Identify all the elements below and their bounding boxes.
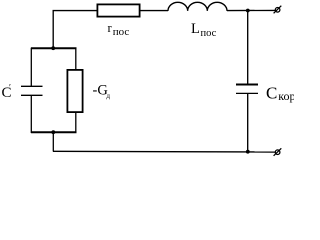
wire -G lower lead xyxy=(75,113,77,134)
node bottom bus junction xyxy=(51,130,55,134)
inductor L_pos xyxy=(168,2,227,11)
negative conductance -G_d box xyxy=(67,70,82,112)
svg-text:д: д xyxy=(106,91,110,100)
wire bottom bus of parallel section xyxy=(31,131,77,133)
node bottom-right junction xyxy=(246,150,250,154)
node top-right junction xyxy=(246,9,250,13)
wire -G upper lead xyxy=(75,48,77,70)
wire bottom rail xyxy=(53,150,275,153)
capacitor C_kor xyxy=(236,85,258,94)
svg-text:C: C xyxy=(266,84,277,103)
wire right branch lower xyxy=(247,93,249,151)
capacitor C-prime xyxy=(21,86,43,95)
wire C-prime lower lead xyxy=(30,95,32,133)
wire top-left corner segment xyxy=(53,11,96,49)
resistor r_pos xyxy=(97,4,139,16)
svg-text:′: ′ xyxy=(9,82,11,92)
wire inductor to top-right terminal xyxy=(227,9,275,11)
wire C-prime upper lead xyxy=(30,48,32,86)
svg-text:кор: кор xyxy=(278,89,294,103)
svg-text:L: L xyxy=(191,21,200,37)
node top bus junction xyxy=(51,46,55,50)
terminal top-right xyxy=(274,6,282,14)
svg-text:пос: пос xyxy=(201,28,217,39)
wire right branch upper xyxy=(247,11,249,84)
svg-text:пос: пос xyxy=(113,26,130,38)
terminal bottom-right xyxy=(274,148,282,156)
wire bottom bus drop to rail xyxy=(52,132,54,151)
wire resistor to inductor xyxy=(141,10,169,12)
wire top bus of parallel section xyxy=(31,47,77,49)
